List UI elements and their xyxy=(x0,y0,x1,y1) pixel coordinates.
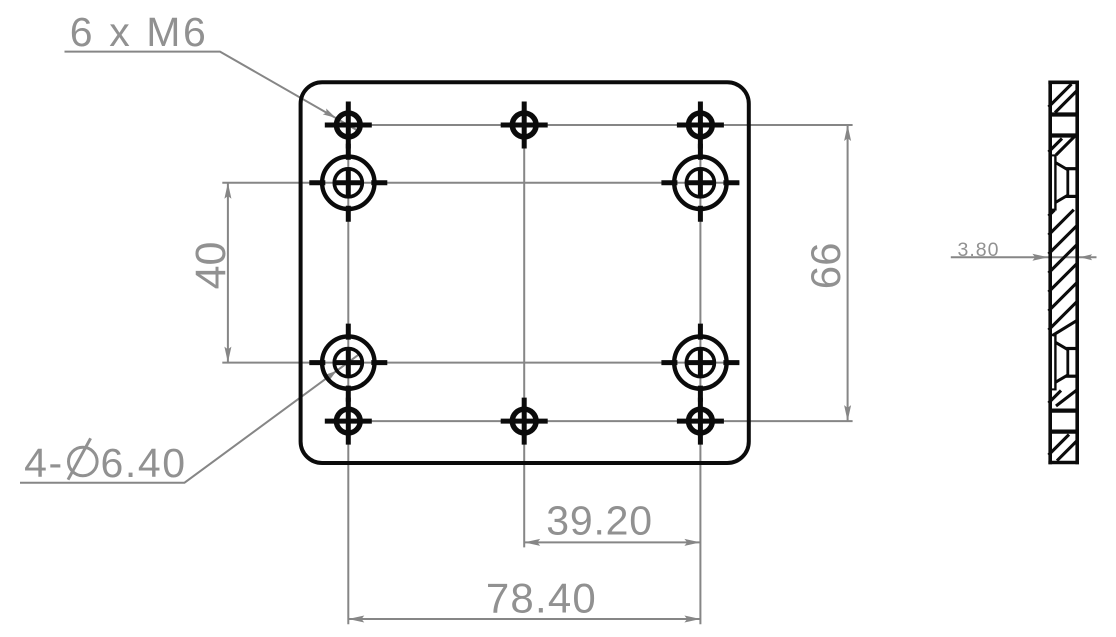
leader 4-dia6.40 underline xyxy=(20,354,359,482)
M6 hole section bottom lines xyxy=(1049,411,1080,432)
crosshair small top-left xyxy=(325,102,372,149)
svg-text:6.40: 6.40 xyxy=(101,440,187,486)
hole small bottom-left xyxy=(336,409,360,433)
arrowhead 39.20 right xyxy=(684,539,700,546)
hole large top-left xyxy=(322,157,374,209)
arrowhead 66 bottom xyxy=(844,405,851,421)
hatch region middle xyxy=(1049,210,1078,336)
arrowhead 3.80 right xyxy=(1080,254,1093,260)
crosshair small bottom-right xyxy=(677,398,724,445)
crosshair large bottom-left xyxy=(309,324,387,402)
crosshair large top-right xyxy=(661,144,739,222)
hole small top-left xyxy=(336,113,360,137)
arrowhead 78.40 left xyxy=(348,616,364,623)
svg-text:39.20: 39.20 xyxy=(546,498,653,544)
svg-text:66: 66 xyxy=(802,243,849,290)
hole small top-right xyxy=(689,113,713,137)
crosshairs small holes xyxy=(325,102,724,445)
leader 6xM6 underline xyxy=(65,52,357,130)
crosshairs large holes (dash-dot) xyxy=(309,144,739,402)
centerline row bottom large holes xyxy=(222,362,739,364)
arrowhead 78.40 right xyxy=(684,616,700,623)
hole large top-right xyxy=(674,157,726,209)
arrowhead 66 top xyxy=(844,125,851,141)
hatch region lower-mid xyxy=(1049,390,1078,406)
crosshair small top-mid xyxy=(501,102,548,149)
svg-text:78.40: 78.40 xyxy=(486,575,597,622)
arrowhead 3.80 left xyxy=(1032,254,1048,261)
hatch region upper-mid xyxy=(1049,134,1078,155)
arrowhead 39.20 left xyxy=(524,539,540,546)
svg-text:3.80: 3.80 xyxy=(958,239,1000,261)
centerline row top large holes xyxy=(222,182,739,184)
centerline column left xyxy=(347,104,349,624)
centerline column right xyxy=(699,104,701,624)
hatch region top xyxy=(1049,84,1078,113)
hole large bottom-left xyxy=(322,336,374,388)
dimension line 39.20 xyxy=(524,541,700,543)
crosshair large top-left xyxy=(309,144,387,222)
svg-text:6 x M6: 6 x M6 xyxy=(70,9,209,55)
hatch region bottom xyxy=(1049,435,1078,461)
diameter symbol drawn xyxy=(68,438,97,479)
svg-text:40: 40 xyxy=(187,242,235,290)
countersink bottom feature xyxy=(1049,334,1078,390)
M6 hole section top lines xyxy=(1049,115,1080,136)
dimension line 40 xyxy=(227,183,229,363)
dimension line 3.80 left xyxy=(951,256,1097,258)
side view outline xyxy=(1048,81,1079,465)
arrowhead leader M6 xyxy=(323,108,338,120)
plate outline xyxy=(301,82,749,463)
hole small bottom-right xyxy=(689,409,713,433)
hole small top-mid xyxy=(512,113,536,137)
centerline row top small holes xyxy=(325,124,853,126)
arrowhead leader dia6.40 xyxy=(326,368,339,380)
crosshair small bottom-left xyxy=(325,398,372,445)
dimension line 78.40 xyxy=(348,618,700,620)
svg-text:4-: 4- xyxy=(24,440,64,486)
centerline row bottom small holes xyxy=(325,420,853,422)
crosshair large bottom-right xyxy=(661,324,739,402)
hole large bottom-right xyxy=(674,336,726,388)
countersink top feature xyxy=(1049,154,1078,210)
centerline column middle xyxy=(523,104,525,547)
crosshair small bottom-mid xyxy=(501,398,548,445)
dimension line 66 xyxy=(847,125,849,421)
crosshair small top-right xyxy=(677,102,724,149)
arrowhead 40 top xyxy=(224,183,231,199)
arrowhead 40 bottom xyxy=(224,347,231,363)
hole small bottom-mid xyxy=(512,409,536,433)
